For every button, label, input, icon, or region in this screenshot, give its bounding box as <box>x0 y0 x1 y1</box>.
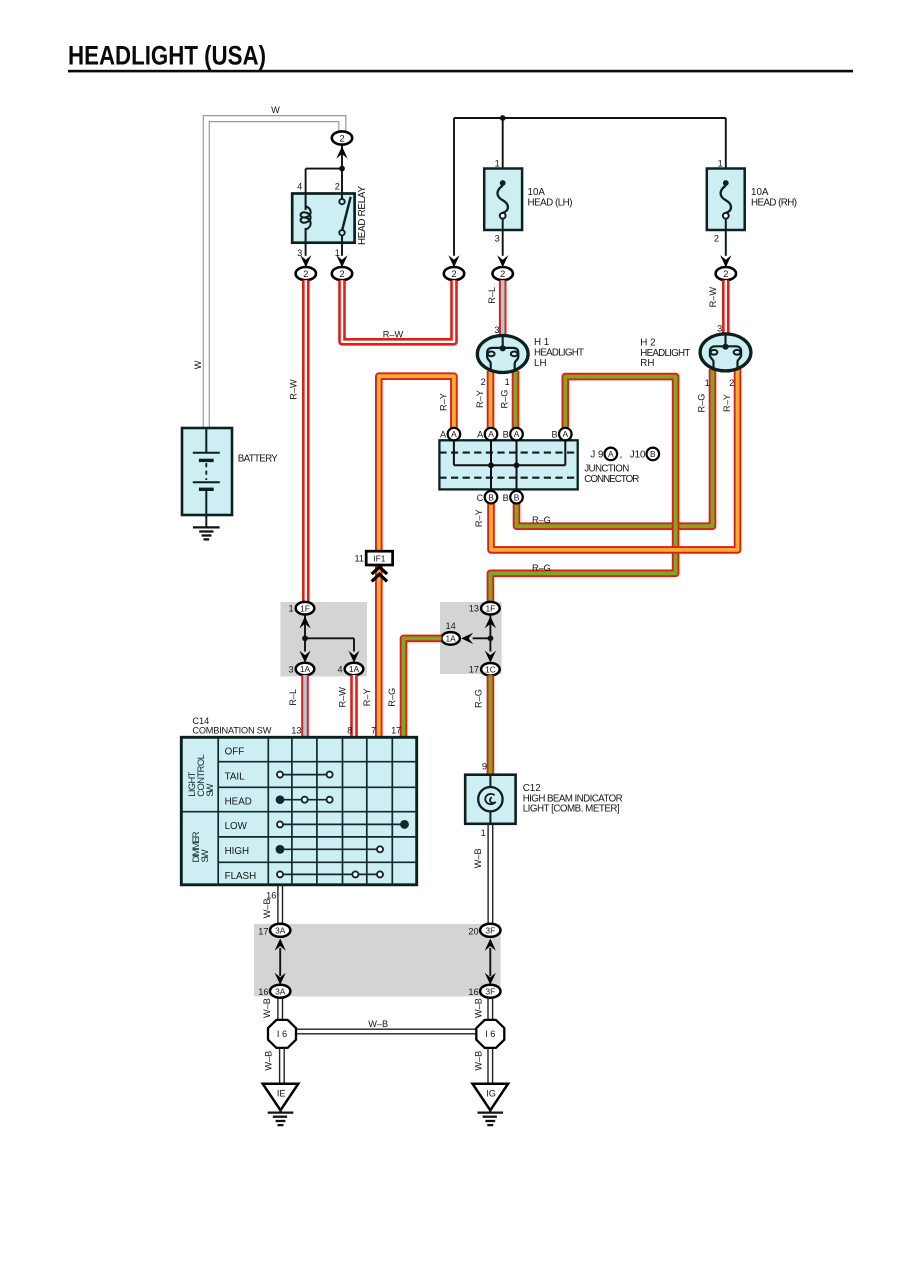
rail drop to fuse LH <box>502 118 504 181</box>
svg-text:R–Y: R–Y <box>722 394 732 412</box>
svg-text:W–B: W–B <box>262 898 272 918</box>
svg-text:W: W <box>193 360 203 369</box>
wire W-B 3A to I6 left <box>278 998 283 1021</box>
svg-text:IF1: IF1 <box>373 553 385 563</box>
junction dot relay top <box>339 166 345 172</box>
relay top wiring: pin2 up with junction to pin4 <box>306 145 342 194</box>
svg-text:1: 1 <box>288 604 293 614</box>
splice I6 right (octagon) <box>476 1020 504 1048</box>
svg-text:HEAD: HEAD <box>225 796 252 807</box>
svg-text:2: 2 <box>339 133 344 143</box>
svg-text:B: B <box>503 493 509 503</box>
wire R-G H2 pin1 loop to junction bottom B <box>517 369 713 526</box>
svg-text:HIGH BEAM INDICATOR: HIGH BEAM INDICATOR <box>523 793 623 804</box>
wire R-G junction topB loop to 1F connector <box>490 377 675 603</box>
wire R-G 1A right to comb sw pin 17 <box>404 638 442 737</box>
svg-text:HEAD (LH): HEAD (LH) <box>528 197 573 208</box>
svg-text:R–L: R–L <box>288 689 298 706</box>
svg-text:14: 14 <box>445 621 455 631</box>
svg-text:3A: 3A <box>275 986 286 996</box>
relay coil pin4 <box>301 194 311 243</box>
svg-text:W–B: W–B <box>263 1051 273 1071</box>
wire W-B I6 left to ground IE <box>280 1048 285 1083</box>
junction connector J9/J10 box <box>439 440 577 491</box>
arrow up into oval 2 (relay feed) <box>336 146 347 158</box>
svg-text:C: C <box>477 493 484 503</box>
svg-text:16: 16 <box>468 987 478 997</box>
svg-text:3: 3 <box>717 323 722 333</box>
ground IG triangle <box>473 1084 509 1125</box>
svg-text:10A: 10A <box>528 187 546 198</box>
wire R-W fuse RH to H2 pin3 <box>722 280 730 335</box>
svg-text:20: 20 <box>468 926 478 936</box>
relay switch pin2-pin1 <box>339 194 350 243</box>
svg-text:SW: SW <box>199 849 210 862</box>
arrows down into connector ovals row <box>300 255 311 267</box>
svg-text:A: A <box>440 430 447 440</box>
svg-text:I 6: I 6 <box>277 1029 287 1039</box>
left box internal black wiring <box>305 615 354 652</box>
oval 3F bottom <box>480 985 500 998</box>
svg-text:B: B <box>514 492 520 502</box>
svg-text:B: B <box>551 430 557 440</box>
wire W battery to relay top (double line) <box>203 116 345 428</box>
oval 1F right <box>481 602 500 615</box>
arrow down into 1C <box>485 651 496 663</box>
svg-text:R–L: R–L <box>487 287 497 304</box>
svg-text:2: 2 <box>451 269 456 279</box>
svg-text:4: 4 <box>337 665 342 675</box>
svg-text:1A: 1A <box>349 664 360 674</box>
svg-text:LIGHT [COMB. METER]: LIGHT [COMB. METER] <box>523 804 620 815</box>
svg-text:R–G: R–G <box>474 689 484 708</box>
oval 3A bottom <box>270 985 290 998</box>
svg-text:C12: C12 <box>523 783 541 794</box>
ovals 1A left pair <box>296 663 315 676</box>
wire R-W relay pin3 down to 1F connector <box>302 280 310 602</box>
svg-text:3A: 3A <box>275 925 286 935</box>
svg-text:3: 3 <box>495 234 500 244</box>
svg-text:W–B: W–B <box>262 998 272 1018</box>
svg-text:W–B: W–B <box>473 998 483 1018</box>
wire R-L fuse LH to H1 pin3 <box>499 280 507 337</box>
wire R-Y IF1 loop to junction A left <box>379 376 454 737</box>
svg-text:R–G: R–G <box>532 515 551 525</box>
oval 3F top <box>480 924 500 937</box>
svg-text:A: A <box>488 429 494 439</box>
FLASH contacts <box>277 871 383 877</box>
top power rail <box>454 117 726 119</box>
3A internal link <box>279 948 281 976</box>
C12 high beam indicator light <box>465 775 515 824</box>
svg-text:B: B <box>488 492 494 502</box>
svg-text:H 2: H 2 <box>640 337 655 348</box>
connector IF1 <box>354 551 392 581</box>
wire R-G H1 pin1 to junction A <box>512 371 520 428</box>
svg-text:2: 2 <box>335 182 340 192</box>
arrow down into 3A bottom <box>275 973 286 985</box>
arrow up into 3F top <box>485 939 496 951</box>
fuse F2 10A HEAD (RH) <box>707 158 797 256</box>
wire R-L 1A to comb sw pin 13 <box>301 675 309 738</box>
node dot on rail <box>500 115 506 121</box>
wire W-B 3F to I6 right <box>488 998 493 1021</box>
svg-text:HEAD (RH): HEAD (RH) <box>751 197 797 208</box>
svg-text:3: 3 <box>494 325 499 335</box>
combination switch C14 <box>181 737 416 885</box>
svg-text:1A: 1A <box>300 664 311 674</box>
svg-text:1C: 1C <box>485 664 496 674</box>
wire W-B horizontal between I6 splices <box>296 1029 477 1034</box>
svg-text:J10: J10 <box>630 450 646 461</box>
rail drop to fuse RH <box>725 118 727 181</box>
svg-text:1: 1 <box>495 158 500 168</box>
svg-text:16: 16 <box>258 987 268 997</box>
svg-text:I 6: I 6 <box>485 1029 495 1039</box>
svg-text:1A: 1A <box>445 634 456 644</box>
svg-text:CONNECTOR: CONNECTOR <box>584 474 639 485</box>
svg-text:IE: IE <box>277 1088 286 1098</box>
svg-text:R–G: R–G <box>387 688 397 707</box>
svg-text:3: 3 <box>288 665 293 675</box>
wire R-W relay pin1 link to rail oval <box>342 280 454 342</box>
svg-text:R–Y: R–Y <box>475 390 485 408</box>
ground below battery <box>193 527 220 539</box>
connector ovals 2 row <box>296 267 316 280</box>
head relay U: box <box>292 186 368 245</box>
svg-text:2: 2 <box>729 378 734 388</box>
wire R-G 1C to C12 <box>487 675 495 775</box>
svg-text:R–G: R–G <box>532 563 551 573</box>
svg-text:LH: LH <box>534 358 547 369</box>
svg-text:H 1: H 1 <box>534 337 549 348</box>
svg-text:,: , <box>620 450 623 461</box>
gray connector box right (1F/1A/1C) <box>440 602 502 674</box>
svg-text:R–G: R–G <box>697 394 707 413</box>
rail drop left to oval 2 <box>453 118 455 256</box>
svg-text:COMBINATION SW: COMBINATION SW <box>192 726 271 736</box>
svg-text:SW: SW <box>204 784 215 797</box>
HIGH contacts <box>276 846 383 853</box>
svg-text:R–Y: R–Y <box>474 509 484 527</box>
TAIL contacts <box>277 772 333 778</box>
svg-text:17: 17 <box>391 726 401 736</box>
H2 headlight RH <box>700 334 751 371</box>
svg-text:B: B <box>503 430 509 440</box>
svg-text:OFF: OFF <box>225 746 245 757</box>
connector oval 2 top of relay <box>332 131 352 144</box>
arrow up into 1F left <box>299 616 310 628</box>
svg-text:B: B <box>650 449 656 459</box>
arrows down into 1A left pair <box>299 651 310 663</box>
svg-text:HEADLIGHT: HEADLIGHT <box>534 348 584 359</box>
svg-text:1F: 1F <box>486 603 496 613</box>
svg-text:7: 7 <box>371 726 376 736</box>
ground IE triangle <box>263 1084 299 1125</box>
svg-text:2: 2 <box>303 269 308 279</box>
svg-text:BATTERY: BATTERY <box>238 453 278 464</box>
arrow down into 3F bottom <box>485 973 496 985</box>
svg-text:IG: IG <box>486 1088 496 1098</box>
svg-text:R–Y: R–Y <box>362 688 372 706</box>
relay pin stubs down <box>306 243 342 256</box>
svg-text:1: 1 <box>481 828 486 838</box>
wire W-B I6 right to ground IG <box>488 1048 493 1083</box>
svg-text:A: A <box>477 430 484 440</box>
H1 headlight LH <box>477 336 528 373</box>
svg-text:1: 1 <box>705 378 710 388</box>
rotated label LIGHT CONTROL SW <box>186 754 215 797</box>
svg-text:A: A <box>514 429 520 439</box>
svg-text:A: A <box>451 429 457 439</box>
svg-text:W–B: W–B <box>473 1051 483 1071</box>
svg-text:10A: 10A <box>751 187 769 198</box>
junction internal bus <box>454 440 565 491</box>
oval 1A right <box>441 632 460 645</box>
svg-text:1F: 1F <box>300 603 310 613</box>
oval 1C <box>481 663 500 676</box>
svg-text:R–G: R–G <box>500 390 510 409</box>
svg-text:R–W: R–W <box>383 330 404 340</box>
svg-text:A: A <box>563 429 569 439</box>
fuse F1 10A HEAD (LH) <box>484 158 572 243</box>
svg-text:A: A <box>608 449 614 459</box>
wire W-B C12 to 3F (double line) <box>488 824 493 924</box>
HEAD contacts <box>277 796 333 803</box>
svg-text:2: 2 <box>500 269 505 279</box>
svg-text:3F: 3F <box>485 925 495 935</box>
svg-text:17: 17 <box>258 926 268 936</box>
svg-text:2: 2 <box>723 269 728 279</box>
gray connector box bottom (3A/3F) <box>254 924 501 997</box>
arrow left into 1A right <box>461 633 473 644</box>
svg-text:17: 17 <box>469 665 479 675</box>
svg-text:LOW: LOW <box>225 821 248 832</box>
svg-text:4: 4 <box>297 182 302 192</box>
svg-text:TAIL: TAIL <box>225 771 246 782</box>
svg-text:13: 13 <box>469 604 479 614</box>
svg-text:R–W: R–W <box>337 687 347 708</box>
arrow up into 1F right <box>485 616 496 628</box>
svg-text:1: 1 <box>718 158 723 168</box>
svg-text:RH: RH <box>640 358 654 369</box>
svg-text:1: 1 <box>505 377 510 387</box>
svg-text:8: 8 <box>347 726 352 736</box>
svg-text:2: 2 <box>481 377 486 387</box>
wire W-B comb sw to 3A <box>278 885 283 924</box>
svg-text:R–W: R–W <box>289 379 299 400</box>
LOW contacts <box>277 821 408 828</box>
oval 3A top <box>270 924 290 937</box>
fuse LH lower stub <box>502 230 504 256</box>
svg-text:FLASH: FLASH <box>225 871 257 882</box>
svg-text:W–B: W–B <box>368 1019 388 1029</box>
svg-text:W: W <box>271 105 280 115</box>
svg-text:HIGH: HIGH <box>225 846 250 857</box>
oval 1F left <box>296 602 315 615</box>
svg-text:HEADLIGHT (USA): HEADLIGHT (USA) <box>68 41 266 71</box>
svg-text:13: 13 <box>291 726 301 736</box>
svg-text:HEADLIGHT: HEADLIGHT <box>640 348 690 359</box>
wire R-Y junction bottom B loop to H2 pin2 <box>491 369 738 550</box>
svg-text:3F: 3F <box>485 986 495 996</box>
svg-text:C14: C14 <box>192 716 209 726</box>
title underline <box>68 70 853 73</box>
svg-text:W–B: W–B <box>473 848 483 868</box>
svg-text:JUNCTION: JUNCTION <box>584 464 629 475</box>
svg-text:2: 2 <box>339 269 344 279</box>
right box internal black wiring <box>473 615 491 652</box>
svg-text:R–W: R–W <box>708 287 718 308</box>
3F internal link <box>489 948 491 976</box>
svg-text:2: 2 <box>714 234 719 244</box>
battery <box>182 428 278 527</box>
arrow up into 3A top <box>275 939 286 951</box>
rotated label DIMMER SW <box>190 831 210 862</box>
splice I6 left (octagon) <box>268 1020 296 1048</box>
wire R-Y H1 pin2 to junction A <box>487 371 495 428</box>
svg-text:HEAD RELAY: HEAD RELAY <box>357 186 368 245</box>
svg-text:9: 9 <box>482 762 487 772</box>
svg-text:11: 11 <box>354 554 364 564</box>
gray connector box left (1F/1A) <box>280 602 367 677</box>
svg-text:J 9: J 9 <box>590 450 603 461</box>
wire R-W 1A to comb sw pin 8 <box>350 675 358 738</box>
svg-text:R–Y: R–Y <box>438 393 448 411</box>
